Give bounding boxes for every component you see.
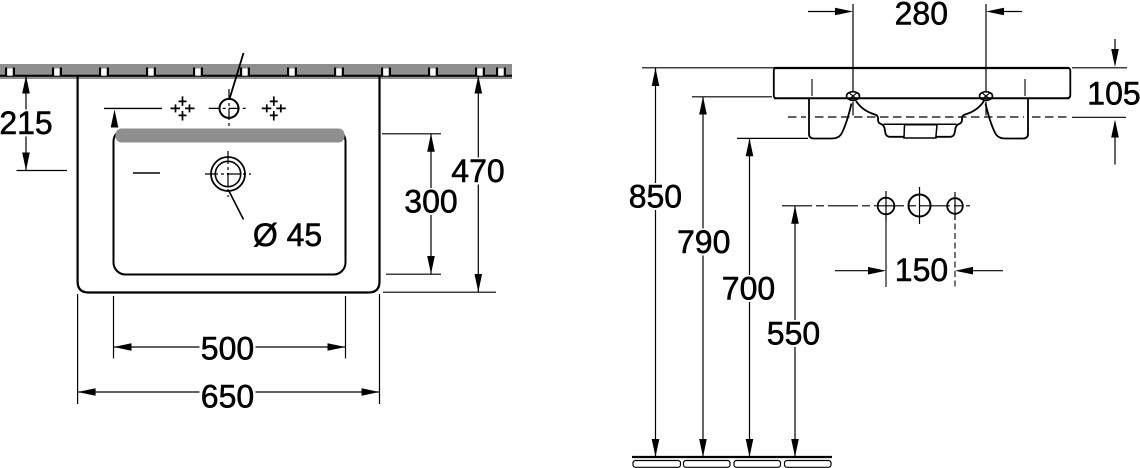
svg-text:650: 650 <box>201 379 254 415</box>
svg-text:850: 850 <box>629 179 682 215</box>
svg-text:500: 500 <box>201 331 254 367</box>
svg-text:105: 105 <box>1087 76 1140 112</box>
svg-text:790: 790 <box>677 224 730 260</box>
svg-text:280: 280 <box>895 0 948 32</box>
svg-text:Ø 45: Ø 45 <box>253 217 322 253</box>
svg-text:550: 550 <box>767 316 820 352</box>
svg-text:700: 700 <box>722 271 775 307</box>
svg-text:150: 150 <box>895 252 948 288</box>
svg-text:300: 300 <box>404 184 457 220</box>
svg-text:215: 215 <box>0 105 53 141</box>
svg-text:470: 470 <box>451 153 504 189</box>
